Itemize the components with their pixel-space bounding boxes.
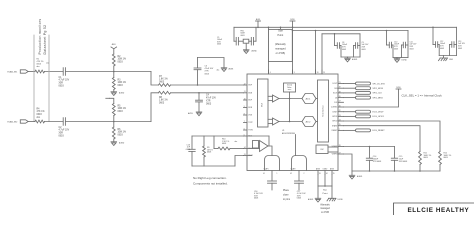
svg-text:47nF 10V: 47nF 10V: [206, 98, 216, 100]
wire group1 bottom bus: [341, 56, 360, 58]
wire clksel to flag: [344, 89, 399, 107]
svg-text:DGND: DGND: [338, 199, 344, 201]
wire star point 2: [292, 27, 294, 74]
svg-text:DOUT: DOUT: [333, 83, 338, 85]
svg-text:21: 21: [339, 82, 341, 84]
svg-text:CLKSEL: CLKSEL: [331, 107, 338, 109]
svg-text:X5R: X5R: [59, 83, 64, 85]
wire top rail AVDD: [234, 26, 457, 28]
svg-text:1.8K 1%: 1.8K 1%: [159, 79, 168, 81]
svg-text:41: 41: [263, 173, 265, 175]
svg-text:X7R 0603: X7R 0603: [373, 161, 381, 163]
svg-text:IN1P: IN1P: [248, 100, 253, 102]
node star stub: [280, 27, 282, 29]
svg-text:Datasheet Pg 52: Datasheet Pg 52: [43, 25, 47, 55]
svg-text:Star: Star: [278, 30, 283, 33]
svg-text:Star: Star: [323, 188, 327, 191]
wire ch1 from port to resistor: [28, 71, 35, 73]
capacitor C7 decoupling: [335, 45, 338, 47]
svg-text:SCLK: SCLK: [333, 93, 338, 95]
svg-text:AGND: AGND: [252, 50, 258, 53]
svg-text:[1]: [1]: [47, 63, 49, 65]
resistor R9 rld: [203, 136, 205, 146]
svg-text:42: 42: [290, 173, 292, 175]
wire ch1 cap to step: [65, 71, 151, 73]
wire DVDD rail2: [293, 30, 409, 32]
svg-text:0603: 0603: [118, 135, 124, 137]
svg-text:DIN: DIN: [334, 88, 338, 90]
svg-text:Alternativ: Alternativ: [320, 204, 330, 207]
svg-text:C1: C1: [59, 77, 63, 79]
svg-text:23: 23: [339, 115, 341, 117]
IC internal osc box: [316, 145, 328, 154]
IC internal rld wires: [247, 135, 269, 137]
svg-text:34: 34: [326, 173, 328, 175]
svg-text:VREFN: VREFN: [332, 154, 339, 156]
svg-text:15: 15: [339, 124, 341, 126]
svg-text:11: 11: [244, 91, 246, 93]
svg-text:12: 12: [244, 83, 246, 85]
capacitor C2 series ch2: [62, 118, 64, 126]
wire star bottom 3: [331, 175, 333, 187]
svg-text:AVSS: AVSS: [229, 68, 234, 71]
wire group1 left vert: [334, 34, 336, 46]
power flag DVDD clksel: [396, 88, 401, 90]
power flag AVDD ch1: [111, 47, 117, 49]
svg-text:R2: R2: [118, 56, 122, 58]
svg-text:4.7uF 10V: 4.7uF 10V: [59, 130, 70, 132]
svg-text:18: 18: [339, 91, 341, 93]
svg-text:0603: 0603: [207, 152, 211, 154]
wire vrefn down: [344, 154, 353, 171]
wire rld to pin RLDR: [235, 156, 244, 167]
wire rail to gnd: [351, 171, 353, 175]
capacitor C15 vref: [394, 147, 396, 159]
svg-text:8: 8: [244, 113, 245, 115]
svg-text:4: 4: [270, 72, 271, 74]
svg-text:TSTN: TSTN: [248, 130, 253, 132]
capacitor C9 decoupling: [387, 44, 390, 46]
capacitor C17 vcap2: [295, 180, 304, 182]
svg-text:0603: 0603: [159, 103, 165, 105]
svg-text:Production monitors: Production monitors: [38, 19, 42, 55]
IC internal rld amp: [253, 141, 259, 149]
svg-text:33: 33: [319, 173, 321, 175]
wire spi 4: [344, 97, 356, 99]
wire ch1 resistor to cap: [45, 71, 64, 73]
wire loop left vert: [233, 27, 235, 41]
IC internal adc2: [279, 121, 302, 123]
svg-text:AVSS: AVSS: [330, 167, 334, 170]
svg-text:3: 3: [294, 72, 295, 74]
svg-text:14: 14: [244, 147, 246, 149]
wire loop right vert: [255, 27, 257, 41]
ground earth group3: [443, 56, 445, 59]
resistor R3 bias lower ch1: [112, 78, 115, 90]
svg-text:0603: 0603: [440, 48, 444, 50]
production monitor line 1: [33, 35, 35, 122]
svg-text:22: 22: [339, 110, 341, 112]
wire ch1 into IC pin: [171, 84, 244, 86]
ground vref: [349, 174, 355, 176]
production monitor line 2: [48, 35, 50, 122]
IC internal dome1: [265, 156, 280, 171]
IC internal ref wire: [289, 92, 291, 122]
wire group3 bottom bus: [439, 55, 456, 57]
svg-text:0603: 0603: [297, 198, 301, 200]
capacitor C14 vref: [369, 147, 371, 159]
svg-text:SPI1_MISO: SPI1_MISO: [373, 97, 384, 99]
svg-text:0603: 0603: [424, 157, 428, 159]
wire ch2 cap to step: [65, 121, 151, 123]
svg-text:AGND: AGND: [357, 175, 363, 178]
node net label SPI1_MOSI: [356, 87, 371, 90]
svg-text:47K 1%: 47K 1%: [37, 111, 45, 113]
ground group1: [347, 57, 349, 58]
svg-text:0603: 0603: [410, 48, 414, 50]
resistor R12 divider: [439, 152, 442, 165]
power flag AVDD rail: [256, 20, 261, 22]
svg-text:10M 1%: 10M 1%: [118, 108, 126, 110]
IC internal adc1: [279, 98, 302, 100]
IC internal mux box: [258, 79, 269, 127]
svg-text:0603: 0603: [59, 136, 65, 138]
svg-text:0603: 0603: [342, 49, 346, 51]
wire drdy: [344, 111, 356, 113]
svg-text:Internal: Internal: [287, 84, 293, 87]
svg-text:ELAN_IN2: ELAN_IN2: [8, 120, 19, 123]
svg-text:RESET: RESET: [332, 130, 338, 132]
wire group1 right vert: [359, 34, 361, 57]
svg-text:1.8K 1%: 1.8K 1%: [159, 100, 168, 102]
ground ch2 bias: [111, 141, 117, 143]
svg-text:AVDD: AVDD: [256, 18, 261, 21]
note star point box: [269, 29, 293, 61]
svg-text:0603: 0603: [59, 86, 65, 88]
IC right pins: [338, 83, 344, 85]
wire vcap2 stem: [298, 171, 300, 182]
svg-text:Place: Place: [283, 189, 290, 192]
wire ch2 from port to resistor: [28, 121, 35, 123]
wire group2 left vert: [386, 31, 388, 46]
capacitor C5 input filter: [234, 40, 236, 42]
power flag DVDD rail: [290, 20, 295, 22]
wire star bottom 1: [317, 175, 319, 187]
capacitor C3 ch1 filter: [197, 84, 199, 86]
svg-text:Refer-: Refer-: [287, 87, 292, 89]
resistor R8 ch2 to IC: [159, 91, 171, 94]
svg-text:0603: 0603: [206, 103, 212, 105]
wire vref bottom rail: [352, 170, 440, 172]
svg-text:0603: 0603: [222, 143, 226, 145]
svg-text:dnc: dnc: [37, 66, 40, 68]
capacitor C4 ch2 filter: [198, 92, 200, 94]
svg-text:X5R: X5R: [59, 133, 64, 135]
svg-text:0603: 0603: [362, 49, 366, 51]
svg-text:R7: R7: [159, 76, 163, 78]
wire gpio2 to R12: [344, 121, 441, 152]
svg-text:TSTP: TSTP: [248, 122, 253, 124]
svg-text:START: START: [332, 124, 337, 127]
svg-text:R4: R4: [37, 108, 41, 110]
wire ch1 step down: [151, 72, 159, 86]
node net label CLK_DRDY: [356, 110, 371, 113]
svg-text:IN1N: IN1N: [248, 107, 253, 109]
svg-text:R6: R6: [118, 129, 122, 131]
resistor R2 bias upper ch1: [112, 54, 115, 66]
wire start to R11: [344, 126, 421, 152]
op-amp U1 ADS1292 outline: [247, 74, 338, 171]
svg-text:AGND: AGND: [352, 58, 358, 61]
wire group3 right vert: [456, 27, 458, 55]
capacitor C12 decoupling: [449, 45, 451, 56]
wire group1 bus: [322, 33, 360, 35]
wire reset: [344, 129, 356, 131]
wire rld drop: [213, 136, 215, 149]
svg-text:1: 1: [277, 173, 278, 175]
svg-text:0603: 0603: [241, 35, 245, 37]
svg-text:Components not installed.: Components not installed.: [193, 181, 228, 185]
svg-text:ECG_RESET: ECG_RESET: [373, 130, 386, 132]
svg-text:DGND: DGND: [402, 60, 408, 62]
svg-text:close: close: [283, 194, 289, 197]
svg-text:Point: Point: [323, 192, 328, 195]
title block border: [394, 203, 474, 215]
svg-text:GPIO2: GPIO2: [332, 121, 337, 123]
svg-text:17: 17: [339, 101, 341, 103]
svg-text:ADS1292IRSM: ADS1292IRSM: [282, 132, 295, 135]
wire group3 left vert: [432, 27, 434, 44]
svg-text:OSC: OSC: [320, 149, 324, 151]
svg-text:MUX: MUX: [261, 102, 263, 107]
svg-text:R3: R3: [118, 79, 122, 81]
svg-text:VCM: VCM: [248, 115, 252, 117]
ground star agnd: [315, 197, 321, 199]
svg-text:0603: 0603: [118, 111, 124, 113]
wire junction ch1: [113, 66, 115, 78]
resistor R11 divider: [419, 152, 422, 165]
svg-text:5: 5: [244, 134, 245, 136]
ground star dgnd: [327, 198, 336, 201]
svg-text:ADC1: ADC1: [306, 97, 311, 100]
svg-text:0603: 0603: [118, 62, 124, 64]
wire spi 1: [344, 83, 356, 85]
svg-text:7: 7: [244, 121, 245, 123]
svg-text:0603: 0603: [37, 114, 43, 116]
IC internal serial box: [318, 80, 329, 142]
svg-text:ence: ence: [288, 89, 292, 91]
svg-text:dnc: dnc: [217, 70, 220, 72]
resistor R5 bias upper ch2: [112, 104, 115, 116]
wire ch2 resistor to cap: [45, 121, 64, 123]
svg-text:CLK: CLK: [334, 102, 338, 104]
svg-text:ECG_GPIO1: ECG_GPIO1: [373, 116, 385, 118]
wire group2 right vert: [407, 31, 409, 58]
svg-text:0603: 0603: [394, 48, 398, 50]
svg-text:(Manually: (Manually: [275, 43, 287, 46]
svg-text:on PCB: on PCB: [321, 212, 329, 214]
wire vrefp rail: [344, 146, 395, 148]
svg-text:6: 6: [244, 128, 245, 130]
IC top pins: [268, 70, 270, 74]
resistor R7 ch1 to IC: [159, 84, 171, 87]
wire DVDD down to IC pin: [315, 31, 317, 75]
svg-text:AGND: AGND: [119, 142, 125, 145]
svg-text:26: 26: [317, 72, 319, 74]
svg-text:No Right Leg connection.: No Right Leg connection.: [193, 176, 227, 180]
wire star bottom 2: [324, 175, 326, 187]
wire rld bottom rail: [192, 165, 235, 167]
wire star point 1: [268, 27, 270, 74]
svg-text:19: 19: [339, 87, 341, 89]
svg-text:0603: 0603: [159, 82, 165, 84]
svg-text:managed: managed: [275, 47, 286, 50]
IC internal amp PGA1: [268, 95, 273, 97]
svg-text:R5: R5: [118, 105, 122, 107]
svg-text:AVSS: AVSS: [316, 167, 320, 170]
svg-text:AGND: AGND: [308, 198, 314, 201]
node net label GPIO1: [356, 115, 371, 118]
IC bottom pins: [317, 171, 319, 175]
svg-text:SPI_CS_STB: SPI_CS_STB: [373, 83, 386, 85]
IC internal amp PGA2: [268, 118, 273, 120]
svg-text:4.7uF 10V: 4.7uF 10V: [59, 80, 70, 82]
svg-text:13: 13: [244, 154, 246, 156]
node net label SPI1_MISO: [356, 96, 371, 99]
svg-text:AVSS: AVSS: [188, 112, 193, 115]
capacitor C1 series ch1: [62, 68, 64, 76]
svg-text:25: 25: [323, 72, 325, 74]
svg-text:C4: C4: [206, 95, 210, 97]
svg-text:Serial Interface: Serial Interface: [321, 105, 324, 116]
wire to gnd ch2: [113, 139, 115, 142]
svg-text:GPIO1: GPIO1: [332, 116, 337, 118]
svg-text:20: 20: [339, 96, 341, 98]
wire C3 to gnd: [198, 58, 225, 68]
svg-text:35: 35: [333, 173, 335, 175]
svg-text:Point: Point: [278, 34, 284, 37]
svg-text:CLK_SEL = 1 => Internal Clock: CLK_SEL = 1 => Internal Clock: [402, 93, 443, 97]
svg-text:10: 10: [244, 98, 246, 100]
svg-text:X5R 0603: X5R 0603: [399, 161, 407, 163]
capacitor C16 vcap1: [268, 180, 277, 182]
wire vcap1 stem: [271, 171, 273, 182]
wire to gnd ch1: [113, 90, 115, 92]
capacitor C10 decoupling: [401, 45, 403, 58]
ground C4: [196, 111, 202, 113]
ferrite bead FB1: [238, 40, 243, 42]
svg-text:AGND: AGND: [119, 92, 125, 95]
svg-text:GND: GND: [449, 59, 454, 61]
IC internal dome2: [292, 156, 307, 171]
capacitor C13 rld: [191, 136, 193, 149]
ground group2: [396, 58, 398, 59]
wire star to dgnd: [331, 186, 333, 198]
svg-text:0603: 0603: [458, 48, 462, 50]
svg-text:X7R: X7R: [206, 100, 211, 102]
svg-text:on PCB): on PCB): [276, 52, 286, 55]
capacitor C11 decoupling: [433, 44, 436, 46]
svg-text:ECG_DRDY: ECG_DRDY: [373, 112, 385, 114]
wire group2 bottom bus: [393, 57, 408, 59]
svg-text:0603: 0603: [217, 44, 221, 46]
svg-text:dnc: dnc: [235, 141, 238, 143]
node net label SPI_CS_STB: [356, 82, 371, 85]
svg-text:dnc: dnc: [37, 117, 42, 119]
wire rld top rail: [192, 135, 244, 137]
svg-text:R8: R8: [159, 97, 163, 99]
resistor R1 series ch1: [35, 70, 44, 73]
svg-text:10M 1%: 10M 1%: [118, 82, 126, 84]
svg-text:ADC2: ADC2: [306, 120, 311, 123]
svg-text:10M 1%: 10M 1%: [118, 132, 126, 134]
svg-text:DGND: DGND: [323, 168, 328, 170]
svg-text:0603: 0603: [186, 149, 190, 151]
svg-text:9: 9: [244, 106, 245, 108]
svg-text:28: 28: [339, 145, 341, 147]
capacitor C8 decoupling: [353, 46, 355, 58]
ground C3: [221, 67, 227, 69]
svg-text:0603: 0603: [444, 157, 448, 159]
IC internal ref box: [284, 83, 296, 92]
power flag bar ch2: [106, 97, 110, 99]
wire gpio1: [344, 115, 356, 117]
wire junction ch2: [113, 116, 115, 128]
svg-text:10M 1%: 10M 1%: [118, 59, 126, 61]
svg-text:C2: C2: [59, 127, 63, 129]
IC left pins: [244, 84, 248, 86]
svg-text:SPI1_CLK: SPI1_CLK: [373, 93, 383, 95]
node net label SPI1_CLK: [356, 91, 371, 94]
resistor R6 bias lower ch2: [112, 127, 115, 139]
ground ch1 bias: [111, 91, 117, 93]
capacitor C6 input filter: [250, 37, 252, 45]
svg-text:AVDD: AVDD: [112, 43, 117, 46]
svg-text:0603: 0603: [205, 73, 210, 75]
svg-text:24: 24: [339, 119, 341, 121]
svg-text:SPI1_MOSI: SPI1_MOSI: [373, 88, 384, 90]
wire ch2 into IC pin: [171, 92, 244, 94]
node net label RESET: [356, 129, 371, 132]
wire star to agnd: [317, 186, 319, 198]
wire spi 3: [344, 92, 356, 94]
svg-text:IN2N: IN2N: [248, 93, 253, 95]
resistor R10 rld feedback: [214, 148, 218, 150]
svg-text:ELLCIE HEALTHY: ELLCIE HEALTHY: [408, 207, 470, 214]
svg-text:2: 2: [304, 173, 305, 175]
resistor R4 series ch2: [35, 120, 44, 123]
svg-text:to pins: to pins: [283, 198, 291, 201]
ground input filter: [243, 49, 249, 51]
svg-text:2: 2: [339, 129, 340, 131]
svg-text:27: 27: [339, 152, 341, 154]
svg-text:ELAN_IN1: ELAN_IN1: [8, 70, 19, 73]
wire spi 2: [344, 87, 356, 89]
svg-text:DRDY: DRDY: [333, 111, 339, 113]
svg-text:IN2P: IN2P: [248, 85, 253, 87]
wire to dome2: [295, 135, 297, 156]
wire ch2 step up: [151, 93, 159, 122]
svg-text:0603: 0603: [254, 198, 258, 200]
svg-text:16: 16: [339, 105, 341, 107]
svg-text:managed: managed: [320, 208, 330, 210]
wire FB to gnd: [245, 44, 247, 50]
svg-text:0603: 0603: [118, 85, 124, 87]
wire star bottom bus: [318, 185, 332, 187]
